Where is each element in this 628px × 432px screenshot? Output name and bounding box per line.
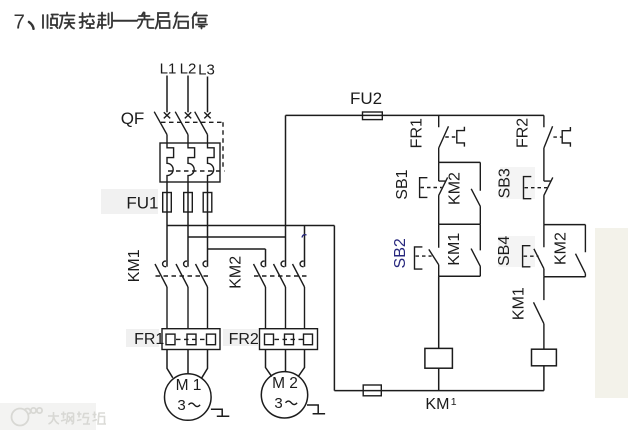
wire pair3 top: [544, 224, 586, 226]
svg-text:SB3: SB3: [497, 168, 514, 198]
fuse FU1: [126, 193, 211, 213]
svg-text:L1: L1: [160, 61, 177, 78]
thermal relay FR2 heaters: [229, 329, 318, 350]
thermal contact FR2 NC: [515, 115, 571, 181]
contactor KM1 main contacts: [126, 249, 210, 328]
node L1: [160, 61, 177, 78]
svg-text:SB4: SB4: [496, 236, 513, 266]
svg-text:FU1: FU1: [126, 194, 158, 213]
svg-text:FR1: FR1: [134, 331, 164, 348]
wire to coil KM1: [438, 276, 440, 348]
svg-text:1: 1: [451, 396, 457, 408]
svg-text:SB2: SB2: [392, 238, 409, 268]
node L2: [180, 61, 197, 78]
wire phase3 QF to KM1: [207, 182, 209, 267]
svg-text:FU2: FU2: [350, 89, 382, 108]
aux contact KM1 NO sequence interlock: [510, 277, 544, 350]
watermark 大数跨境 text: [48, 412, 106, 425]
coil KM1: [425, 348, 457, 412]
wire control return drop: [333, 226, 335, 391]
pushbutton SB1 NC stop: [394, 162, 448, 224]
fuse bottom return: [363, 385, 381, 396]
wire FR1 to M1: [167, 350, 208, 378]
pushbutton SB4 NO start: [496, 225, 544, 277]
wire pair1 top: [439, 161, 481, 163]
svg-text:KM2: KM2: [228, 256, 245, 289]
wire FR2 to M2: [266, 350, 305, 377]
circuit breaker QF: [121, 109, 225, 182]
pushbutton SB2 NO start: [392, 224, 439, 276]
thermal relay FR1 heaters: [134, 329, 220, 350]
wire KM2 pole3 drop: [304, 226, 306, 267]
wire phase2 QF to KM1: [187, 182, 189, 267]
junction hook node: [302, 235, 307, 238]
wire jumper L1 to KM2 and control: [167, 225, 334, 227]
svg-text:QF: QF: [121, 109, 145, 128]
aux contact KM1 NO self-hold: [446, 224, 480, 276]
wire L2 to QF: [187, 76, 189, 113]
svg-text:3: 3: [274, 395, 282, 412]
svg-text:L2: L2: [180, 61, 197, 78]
motor M1: [165, 374, 212, 421]
wire pair3 bottom: [544, 276, 586, 278]
pushbutton SB3 NC stop: [497, 168, 553, 225]
coil KM2: [532, 349, 557, 390]
node L3: [198, 62, 215, 79]
ground M2: [307, 405, 325, 414]
wire phase1 QF to KM1: [166, 182, 168, 267]
motor M2: [261, 372, 307, 418]
svg-text:KM: KM: [425, 396, 449, 413]
aux contact KM2 NO self-hold: [553, 225, 586, 277]
svg-text:KM1: KM1: [126, 249, 143, 282]
thermal contact FR1 NC: [408, 115, 464, 162]
svg-text:FR2: FR2: [515, 118, 532, 148]
svg-text:L3: L3: [198, 62, 215, 79]
wire pair2 bottom: [439, 275, 481, 277]
svg-text:SB1: SB1: [394, 169, 411, 199]
svg-text:FR2: FR2: [229, 331, 259, 348]
svg-text:M 2: M 2: [272, 375, 298, 392]
wire control bottom return: [334, 390, 544, 392]
svg-text:KM1: KM1: [446, 233, 463, 266]
wire KM2 pole1 drop: [265, 249, 267, 267]
wire jumper L3 to KM2: [208, 248, 266, 250]
svg-text:KM2: KM2: [446, 172, 463, 205]
svg-text:7: 7: [14, 11, 25, 34]
contactor KM2 main contacts: [228, 256, 307, 329]
wire L1 to QF: [166, 76, 168, 113]
watermark 大数跨境 logo: [12, 408, 43, 426]
title 7、顺序控制—先启后停: [14, 11, 208, 34]
aux contact KM2 NO parallel SB1: [446, 162, 480, 224]
wire L3 to QF: [207, 77, 209, 113]
ground M1: [211, 409, 229, 416]
svg-text:KM1: KM1: [510, 287, 527, 320]
svg-text:3: 3: [177, 397, 185, 414]
svg-text:FR1: FR1: [408, 118, 425, 148]
wire pair1 bottom: [439, 223, 481, 225]
svg-text:KM2: KM2: [553, 232, 570, 265]
svg-text:M 1: M 1: [176, 377, 202, 394]
wire jumper L2 to KM2: [188, 236, 286, 238]
wire control bus top: [286, 114, 544, 116]
fuse FU2: [350, 89, 382, 120]
wire KM2 pole2 control vertical: [285, 115, 287, 266]
